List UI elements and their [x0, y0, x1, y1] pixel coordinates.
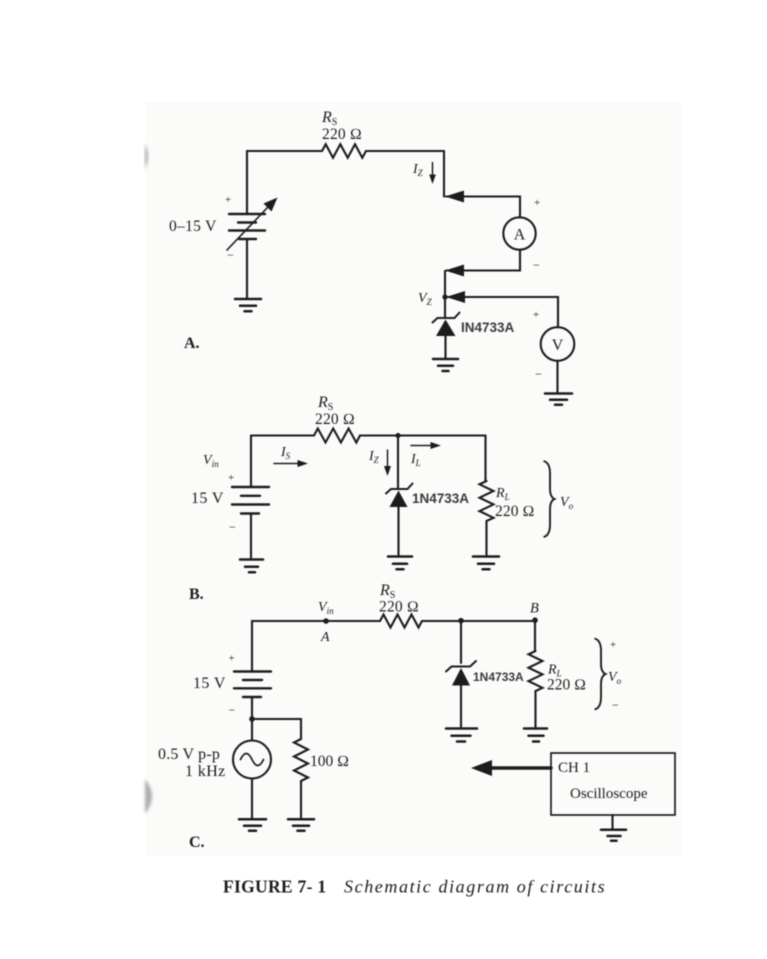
wire: ammeter bottom lead	[446, 250, 520, 271]
node VZ dot	[442, 294, 447, 299]
arrow into VZ node	[446, 291, 465, 303]
IL arrow	[411, 445, 432, 447]
ground (sine source)	[239, 819, 266, 831]
svg-text:1N4733A: 1N4733A	[473, 670, 524, 684]
wire: C top rail left	[252, 620, 380, 622]
svg-text:A: A	[514, 227, 526, 244]
wire: voltmeter top lead	[447, 297, 558, 327]
wire: B battery vertical	[250, 436, 252, 487]
ground (100 ohm)	[288, 819, 314, 831]
resistor RL (circuit B)	[480, 481, 494, 521]
ground (voltmeter)	[545, 394, 572, 405]
wire: B right corner down to RL	[484, 436, 486, 482]
wire: B top rail left	[251, 434, 314, 436]
svg-text:−: −	[227, 248, 234, 262]
ground (RL C)	[524, 729, 547, 742]
IS arrow	[274, 463, 299, 465]
svg-text:C.: C.	[189, 834, 205, 851]
svg-text:+: +	[533, 309, 539, 321]
svg-text:15 V: 15 V	[191, 490, 224, 507]
wire: junction to sine source	[251, 719, 253, 741]
wire: junction to 100 ohm branch	[252, 719, 301, 739]
IZ arrow (B)	[387, 450, 389, 468]
brace (B)	[544, 461, 555, 537]
svg-text:Schematic diagram of circuits: Schematic diagram of circuits	[344, 877, 606, 897]
zener diode 1N4733A (B)	[397, 436, 399, 489]
arrow into node top	[445, 191, 464, 203]
node dot (zener top B)	[395, 433, 400, 438]
wire: A top rail right	[366, 150, 444, 152]
resistor RS (circuit A)	[322, 144, 366, 158]
svg-text:B: B	[530, 601, 539, 617]
wire: A source bottom to ground	[246, 239, 248, 298]
wire: A left vertical to source	[246, 151, 248, 213]
zener diode 1N4733A (C)	[460, 621, 462, 663]
svg-text:220 Ω: 220 Ω	[547, 677, 586, 694]
ground (oscilloscope)	[601, 830, 626, 841]
wire: node B down to RL	[534, 620, 536, 651]
svg-text:100 Ω: 100 Ω	[310, 753, 349, 770]
ground (zener A)	[433, 359, 458, 371]
svg-text:220 Ω: 220 Ω	[322, 126, 362, 143]
resistor RS (circuit C)	[380, 615, 422, 628]
voltmeter V	[541, 327, 575, 361]
svg-text:FIGURE 7- 1: FIGURE 7- 1	[223, 877, 326, 897]
wire: B battery bottom to ground	[250, 514, 252, 559]
ground (zener B)	[388, 557, 412, 570]
resistor RL (circuit C)	[529, 651, 543, 697]
wire: RL bottom to ground (B)	[485, 521, 487, 555]
svg-text:−: −	[229, 520, 236, 534]
wire: ammeter top lead	[446, 197, 520, 218]
ground (RL B)	[473, 557, 499, 570]
svg-text:0–15 V: 0–15 V	[169, 218, 217, 235]
svg-text:−: −	[533, 258, 540, 272]
oscilloscope box	[551, 753, 675, 815]
battery 0-15 V variable source	[229, 214, 265, 239]
svg-text:220 Ω: 220 Ω	[315, 411, 355, 428]
svg-text:−: −	[612, 698, 619, 712]
wire: RL bottom to ground (C)	[534, 697, 536, 727]
svg-text:CH 1: CH 1	[558, 760, 590, 776]
variable source arrow	[227, 207, 268, 250]
wire: sine source to ground	[251, 779, 253, 819]
brace (C)	[595, 639, 606, 710]
wire: down to VZ node	[444, 271, 446, 297]
wire: A right vertical from rail	[443, 151, 445, 197]
svg-text:A: A	[320, 630, 330, 645]
svg-text:+: +	[229, 653, 235, 665]
wire: voltmeter bottom lead	[556, 361, 558, 392]
ground (A source)	[235, 299, 261, 311]
wire: B top rail right	[360, 434, 486, 436]
svg-text:+: +	[610, 639, 616, 651]
svg-text:15 V: 15 V	[193, 675, 226, 692]
svg-text:−: −	[229, 703, 236, 717]
ammeter A	[503, 217, 535, 249]
svg-text:Oscilloscope: Oscilloscope	[570, 786, 648, 802]
scan background	[145, 102, 681, 856]
wire: C battery bottom to junction	[251, 697, 253, 719]
node dot (zener top C)	[458, 618, 464, 624]
svg-text:1N4733A: 1N4733A	[412, 491, 469, 506]
scan artifact crescent top-left	[145, 144, 148, 169]
svg-text:1 kHz: 1 kHz	[185, 763, 226, 780]
battery 15 V (C)	[234, 672, 271, 698]
svg-text:220 Ω: 220 Ω	[379, 599, 419, 616]
battery 15 V (B)	[232, 487, 269, 514]
svg-text:IN4733A: IN4733A	[461, 320, 515, 335]
IZ down arrow (A)	[429, 162, 436, 184]
svg-text:220 Ω: 220 Ω	[495, 503, 535, 520]
ground (B battery)	[240, 560, 263, 573]
svg-text:B.: B.	[189, 586, 204, 603]
svg-text:0.5 V p-p: 0.5 V p-p	[158, 746, 220, 763]
wire: 100 ohm to ground	[300, 781, 302, 819]
wire: C top rail right	[422, 620, 535, 622]
resistor 100 ohm	[294, 739, 308, 781]
resistor RS (circuit B)	[314, 429, 360, 443]
wire: A top rail left	[247, 150, 322, 152]
svg-text:+: +	[534, 197, 540, 209]
oscilloscope arrow	[489, 766, 551, 769]
sine source 0.5 V p-p	[233, 741, 271, 779]
svg-text:A.: A.	[184, 335, 200, 352]
svg-text:+: +	[228, 472, 234, 484]
node A dot	[323, 618, 329, 624]
scan artifact blob bottom-left	[145, 779, 152, 814]
svg-text:−: −	[535, 367, 542, 381]
svg-text:+: +	[225, 194, 231, 206]
wire: oscilloscope ground stem	[611, 815, 613, 829]
junction dot	[249, 716, 255, 722]
ground (zener C)	[446, 729, 477, 742]
zener diode 1N4733A (A)	[444, 297, 446, 318]
node B dot	[532, 617, 538, 623]
arrow into node bottom	[445, 265, 464, 277]
svg-text:V: V	[552, 337, 564, 354]
wire: C battery vertical	[251, 621, 253, 671]
